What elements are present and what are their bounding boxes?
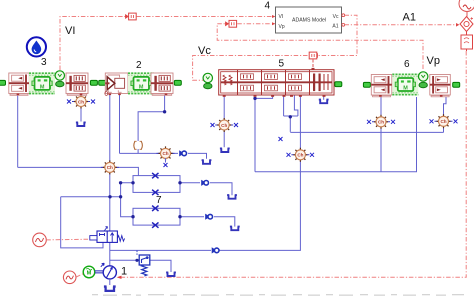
junction dots bbox=[108, 97, 292, 262]
relief valve bbox=[137, 251, 150, 276]
droplet fluid properties icon bbox=[27, 37, 46, 56]
svg-text:7: 7 bbox=[156, 195, 162, 206]
wire upper crossover y131.9 to Ch4 riser bbox=[290, 131, 443, 133]
wire valve5 p3 down bbox=[283, 95, 285, 116]
wire pump line right with CV3 bbox=[110, 249, 211, 251]
check valve CV4 after ChC bbox=[179, 150, 186, 156]
valve3 right stub bbox=[90, 80, 97, 85]
valve6 right red block bbox=[430, 75, 451, 97]
signal source sine 2 (motor) bbox=[63, 271, 83, 284]
wire valve5 p1 down through ChB to tank T2 bbox=[223, 95, 225, 147]
wire ChD horizontal line to loop1 top bbox=[18, 167, 139, 175]
valve2 green section bbox=[128, 72, 154, 94]
orifice X loop1 top bbox=[152, 173, 158, 178]
loop2 rectangle of component 7 bbox=[133, 208, 180, 225]
svg-text:Vc: Vc bbox=[198, 45, 211, 57]
svg-text:5: 5 bbox=[279, 59, 285, 70]
wire bus drop to loop2 bbox=[121, 197, 133, 217]
wire relief valve branch bbox=[110, 259, 139, 261]
gauge ChC on orifice line bbox=[157, 146, 175, 167]
valve3 left red block bbox=[9, 73, 30, 95]
wire bus riser to loop1 bbox=[121, 183, 133, 197]
svg-text:A1: A1 bbox=[403, 12, 416, 24]
pump 1 bbox=[101, 263, 117, 285]
valve5 body bbox=[219, 68, 334, 97]
tank T6 after CV2 bbox=[230, 227, 240, 231]
valve6 right stub bbox=[453, 82, 460, 87]
gauge Ch3 on valve6 left line bbox=[367, 115, 395, 129]
wire valve5 p5 down through Ch2 to pump line corner bbox=[215, 95, 300, 250]
wire valve2 port B down to ChC line bbox=[119, 95, 121, 153]
motor shaft bbox=[95, 271, 103, 273]
wire pump main vertical A bbox=[109, 95, 111, 266]
svg-text:2: 2 bbox=[136, 60, 142, 71]
wire valve6 left port down through Ch3 to lower crossover bbox=[380, 97, 382, 172]
ADAMS Model block bbox=[272, 7, 345, 33]
valve5 right stub bbox=[335, 82, 342, 87]
wire relief valve drain to tank T8 bbox=[150, 260, 171, 272]
valve6 left stub bbox=[363, 82, 370, 87]
svg-text:Vc: Vc bbox=[333, 14, 339, 20]
valve6 left red block bbox=[371, 75, 392, 97]
check valve CV3 bbox=[212, 247, 219, 253]
signal source circle (top right, clipped) bbox=[459, 0, 474, 17]
wire left bypass box bbox=[61, 197, 103, 248]
electric motor bbox=[83, 266, 103, 278]
valve6 green section bbox=[392, 74, 418, 96]
svg-text:Vp: Vp bbox=[279, 24, 285, 30]
gauge ChB below valve5 p1 bbox=[211, 118, 239, 132]
wire p3-p4 join bbox=[284, 116, 298, 132]
svg-text:M: M bbox=[87, 270, 92, 276]
stray blue x mark bbox=[279, 137, 283, 141]
valve3 right red block bbox=[66, 73, 88, 95]
svg-text:3: 3 bbox=[41, 57, 47, 68]
tank T2 under ChB bbox=[220, 148, 230, 152]
valve2 right red block bbox=[151, 73, 173, 95]
valve3 actuator bbox=[55, 71, 64, 87]
wire Vp signal: valve6 actuator up, left, up to square then ADAMS Vp input bbox=[217, 24, 423, 69]
check valve CV1 bbox=[201, 180, 208, 186]
tank T7 under pump bbox=[104, 287, 116, 291]
tank T4 under valve5 right bbox=[323, 95, 325, 100]
loop1 rectangle of component 7 bbox=[133, 176, 180, 193]
wire pump drive signal along bottom and right edge bbox=[121, 51, 467, 277]
valve2 left stub bbox=[99, 80, 106, 85]
multiplier diamond (right edge) bbox=[460, 17, 473, 32]
wire volume drop to ChC line bbox=[137, 149, 139, 153]
wire A1 signal: ADAMS A1 output right to integrator chain bbox=[345, 24, 457, 26]
wire supply bus y196.8 bbox=[61, 196, 121, 198]
tank T5 after CV1 bbox=[227, 195, 237, 199]
orifice X loop2 top bbox=[152, 206, 158, 211]
tank T3 after ChC line bbox=[202, 160, 212, 164]
valve 6 (proportional directional valve) bbox=[363, 59, 459, 97]
wire Vc signal: ADAMS Vc output right, down, left along y55.5, down to valve5 pilot bbox=[193, 15, 357, 80]
svg-text:Vp: Vp bbox=[427, 55, 440, 67]
valve 5 (multi-section spool valve) bbox=[203, 59, 342, 97]
svg-text:VI: VI bbox=[65, 25, 75, 37]
wire valve2 right port down and left to volume bbox=[138, 95, 165, 141]
gauge Ch4 on valve6 right line bbox=[430, 114, 458, 128]
valve2 right stub bbox=[174, 80, 181, 85]
gauge Ch2 on valve5 p5 line bbox=[287, 148, 315, 162]
wire valve5 p4 jog bbox=[294, 95, 298, 116]
pilot valve 2/2 (component above pump) bbox=[90, 227, 125, 243]
svg-text:1: 1 bbox=[121, 266, 127, 278]
svg-text:4: 4 bbox=[265, 1, 271, 12]
wire ChC line horizontal bbox=[120, 152, 179, 154]
orifice X loop1 bottom bbox=[152, 190, 158, 195]
orifice X loop2 bottom bbox=[152, 222, 158, 227]
wire valve3 left port down to ChD line bbox=[17, 95, 19, 167]
svg-text:VI: VI bbox=[279, 14, 284, 20]
wire ChC cv to tank T3 bbox=[188, 153, 207, 158]
wire CV2 to tank T6 bbox=[214, 217, 235, 227]
wire Vc pilot branch down to valve5 top bbox=[312, 60, 314, 71]
node square S2 on Vp line bbox=[226, 20, 237, 27]
hydraulic volume element bbox=[134, 141, 142, 149]
wire VI signal: valve3 actuator up and right to ADAMS input bbox=[60, 17, 272, 71]
valve 2 (servo valve) bbox=[99, 60, 182, 95]
wire loop2 exit to CV2 bbox=[180, 216, 204, 218]
svg-text:ADAMS Model: ADAMS Model bbox=[292, 18, 326, 24]
signal source sine 1 (valve pilot) bbox=[33, 233, 90, 247]
integrator block (right edge) bbox=[461, 32, 473, 52]
valve2 left red block bbox=[105, 73, 128, 95]
valve6 actuator bbox=[419, 72, 428, 88]
wire CV1 to tank T5 bbox=[210, 183, 232, 195]
tank T1 under ChA bbox=[76, 122, 86, 126]
svg-text:A1: A1 bbox=[332, 24, 338, 30]
valve3 green section bbox=[29, 72, 55, 94]
valve3 left stub bbox=[0, 80, 6, 85]
check valve CV2 bbox=[205, 214, 212, 220]
wire valve6 right port down through Ch4 bbox=[444, 97, 447, 132]
caption fragments at bottom edge bbox=[92, 294, 464, 296]
tank T8 relief drain bbox=[166, 272, 176, 276]
node square S3 on Vc line bbox=[309, 52, 317, 59]
wire loop1 exit to CV1 bbox=[180, 182, 200, 184]
node square S1 on VI line bbox=[125, 13, 137, 20]
gauge ChD on pump line cross bbox=[101, 160, 119, 174]
wire valve5 p2 jog to crossover left riser bbox=[255, 95, 273, 172]
gauge ChA below valve3 bbox=[67, 95, 95, 122]
valve5 pilot actuator bbox=[203, 73, 212, 88]
valve 3 (proportional directional valve) bbox=[0, 57, 97, 95]
svg-text:6: 6 bbox=[404, 59, 410, 70]
wire lower crossover y171.7 to valve6 mid riser bbox=[255, 97, 417, 172]
